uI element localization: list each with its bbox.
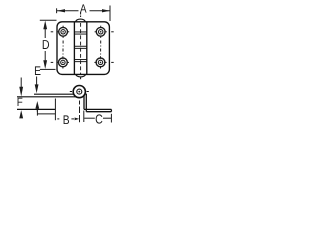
svg-text:B: B bbox=[63, 114, 70, 127]
svg-text:C: C bbox=[95, 111, 103, 126]
svg-text:F: F bbox=[17, 96, 23, 109]
svg-text:E: E bbox=[34, 65, 41, 78]
svg-text:D: D bbox=[42, 37, 50, 52]
svg-text:A: A bbox=[80, 3, 87, 16]
